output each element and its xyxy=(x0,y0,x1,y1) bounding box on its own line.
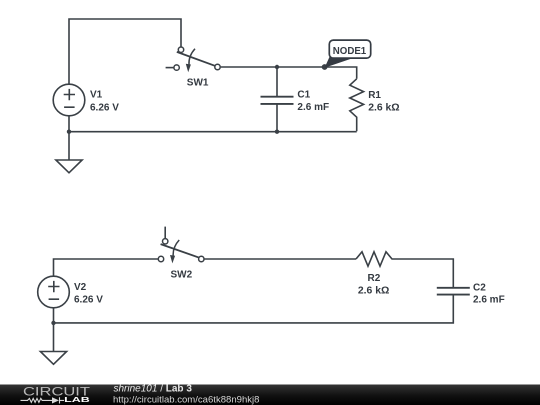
svg-text:SW1: SW1 xyxy=(187,78,209,89)
svg-text:V1: V1 xyxy=(90,90,103,101)
svg-text:2.6 mF: 2.6 mF xyxy=(297,102,329,113)
svg-text:6.26 V: 6.26 V xyxy=(90,103,119,114)
svg-text:2.6 kΩ: 2.6 kΩ xyxy=(358,286,389,297)
svg-text:R1: R1 xyxy=(368,90,381,101)
svg-text:2.6 kΩ: 2.6 kΩ xyxy=(368,103,399,114)
svg-text:2.6 mF: 2.6 mF xyxy=(473,294,505,305)
svg-text:http://circuitlab.com/ca6tk88n: http://circuitlab.com/ca6tk88n9hkj8 xyxy=(113,395,260,405)
svg-text:R2: R2 xyxy=(368,273,381,284)
svg-text:V2: V2 xyxy=(74,282,87,293)
svg-text:NODE1: NODE1 xyxy=(333,46,367,57)
svg-text:LAB: LAB xyxy=(64,395,91,404)
svg-text:shrine101 / Lab 3: shrine101 / Lab 3 xyxy=(114,384,193,395)
svg-text:C1: C1 xyxy=(297,90,310,101)
svg-text:SW2: SW2 xyxy=(171,270,193,281)
svg-text:C2: C2 xyxy=(473,282,486,293)
svg-text:6.26 V: 6.26 V xyxy=(74,295,103,306)
